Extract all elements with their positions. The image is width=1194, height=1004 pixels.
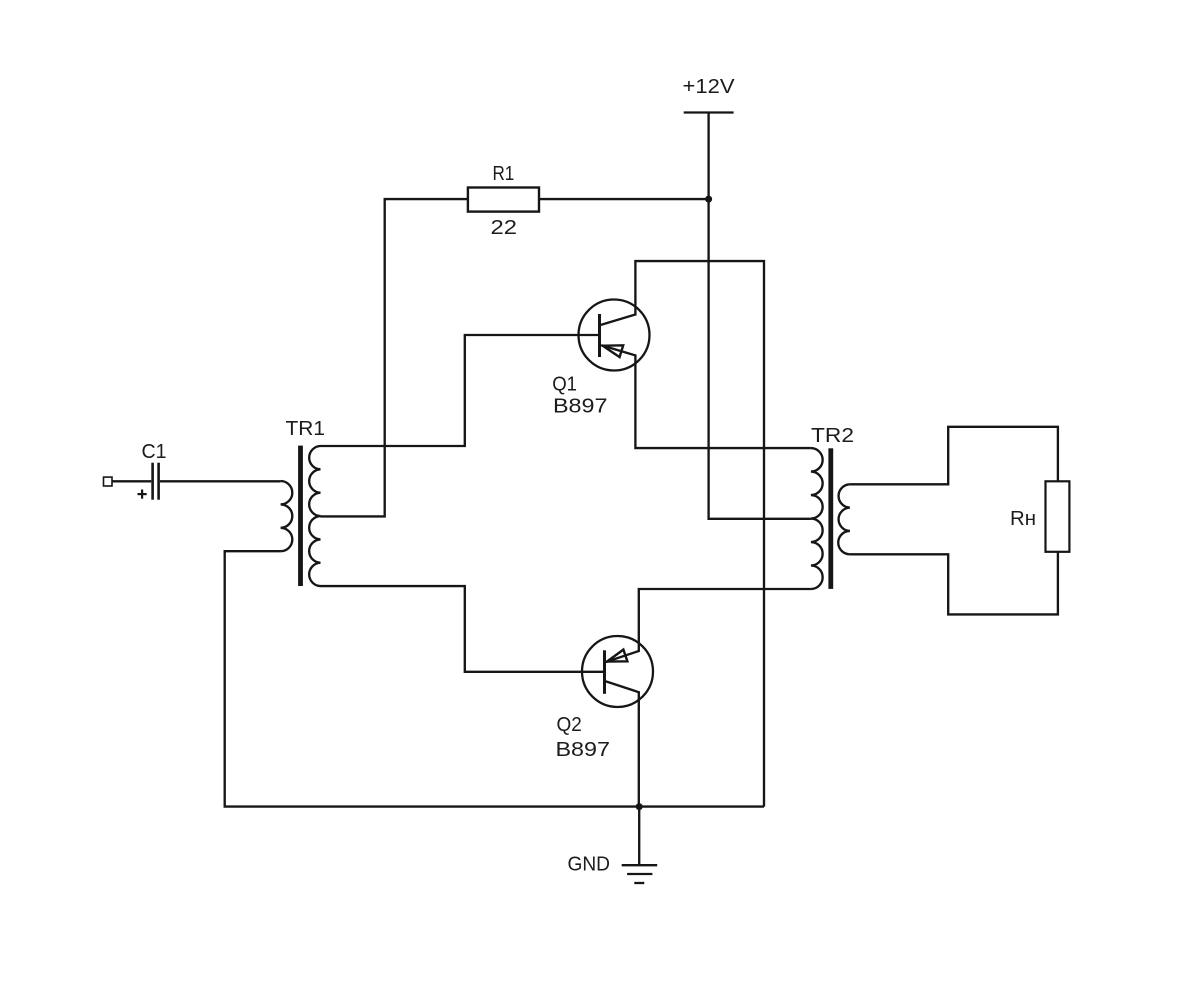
svg-text:GND: GND — [568, 852, 611, 875]
svg-text:C1: C1 — [142, 440, 167, 463]
svg-text:TR1: TR1 — [286, 417, 326, 440]
svg-text:B897: B897 — [553, 394, 608, 417]
svg-text:Q1: Q1 — [552, 373, 577, 396]
svg-text:R1: R1 — [493, 162, 515, 185]
svg-text:+12V: +12V — [683, 75, 735, 98]
svg-text:B897: B897 — [556, 738, 611, 761]
svg-text:TR2: TR2 — [811, 424, 854, 447]
svg-text:Q2: Q2 — [557, 713, 582, 736]
svg-text:22: 22 — [491, 216, 518, 239]
svg-text:Rн: Rн — [1010, 507, 1036, 530]
